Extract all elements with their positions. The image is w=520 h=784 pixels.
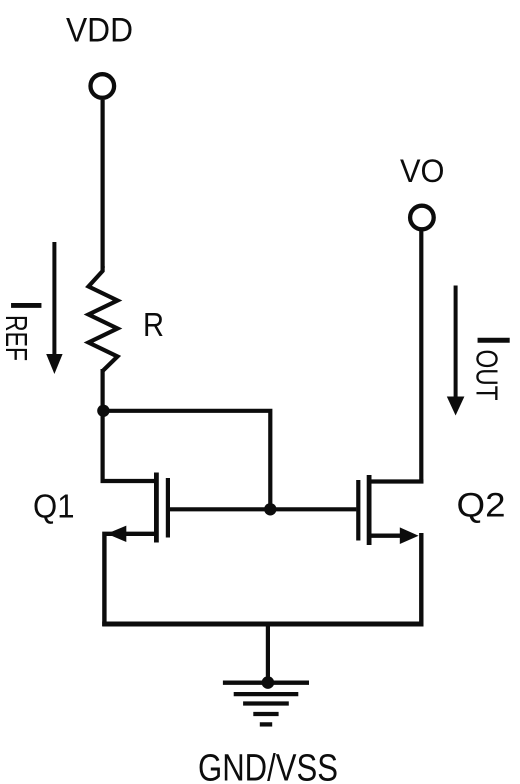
ground junction dot: [262, 676, 275, 689]
wire resistor to node: [100, 369, 104, 412]
wire VO to Q2 drain: [419, 231, 423, 484]
wire VDD to resistor: [100, 100, 104, 268]
svg-text:REF: REF: [0, 315, 34, 361]
ground symbol: [223, 683, 309, 725]
terminal VDD: [91, 74, 115, 98]
label IREF: [0, 300, 49, 362]
svg-text:Q2: Q2: [457, 487, 506, 525]
svg-text:Q1: Q1: [33, 489, 75, 526]
svg-text:I: I: [468, 334, 519, 347]
node B gate junction: [264, 503, 276, 515]
node A drain-gate junction: [97, 405, 109, 417]
bottom rail wire: [102, 622, 423, 627]
svg-text:R: R: [143, 307, 164, 344]
terminal VO: [410, 206, 434, 230]
svg-text:I: I: [2, 300, 49, 312]
current arrow IOUT: [447, 286, 465, 416]
svg-text:VO: VO: [400, 153, 445, 189]
wire gate bus: [170, 507, 357, 511]
wire rail to ground: [266, 622, 270, 683]
svg-text:OUT: OUT: [470, 350, 505, 401]
transistor Q2: [358, 475, 423, 626]
label IOUT: [468, 334, 519, 401]
current arrow IREF: [46, 242, 62, 374]
svg-text:VDD: VDD: [66, 12, 133, 50]
resistor R: [89, 266, 118, 371]
transistor Q1: [103, 409, 168, 626]
svg-text:GND/VSS: GND/VSS: [198, 748, 338, 784]
wire node A to gate column: [103, 411, 270, 510]
